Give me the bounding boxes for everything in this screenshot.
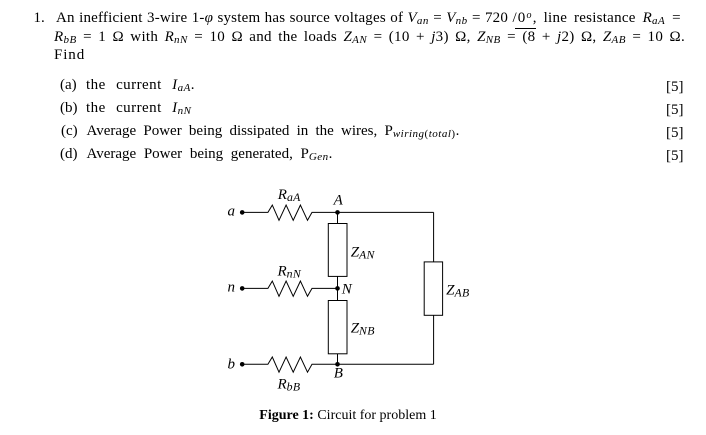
svg-text:RnN: RnN bbox=[277, 264, 302, 281]
svg-text:n: n bbox=[228, 280, 236, 296]
svg-text:ZNB: ZNB bbox=[351, 321, 375, 338]
svg-text:ZAN: ZAN bbox=[351, 244, 376, 261]
svg-text:B: B bbox=[334, 366, 343, 382]
svg-text:a: a bbox=[228, 204, 236, 220]
svg-text:b: b bbox=[228, 357, 236, 373]
svg-text:A: A bbox=[333, 193, 344, 209]
svg-text:RbB: RbB bbox=[277, 377, 301, 394]
svg-text:RaA: RaA bbox=[277, 187, 301, 204]
svg-text:N: N bbox=[341, 282, 353, 298]
svg-text:ZAB: ZAB bbox=[446, 282, 469, 299]
